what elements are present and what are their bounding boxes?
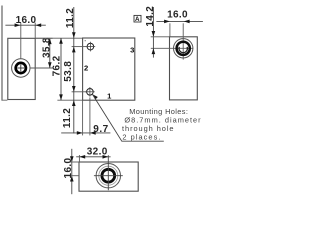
dim 14.2 upper arrow (152, 31, 156, 37)
bottom view hole center line horizontal (94, 175, 123, 177)
ext line front left edge down (82, 100, 84, 135)
right view counterbore circle (174, 39, 193, 58)
left view hole crosshair (17, 67, 24, 69)
dim 16.0 (left view) line (5, 24, 45, 26)
front view body outline (83, 38, 135, 100)
stray speck (85, 40, 86, 41)
dim 9.7 line (61, 132, 110, 134)
svg-text:3: 3 (130, 46, 135, 55)
svg-text:11.2: 11.2 (65, 8, 76, 28)
svg-text:2: 2 (84, 64, 89, 73)
svg-text:2 places.: 2 places. (122, 132, 161, 141)
ext line hole1 center left (72, 91, 87, 93)
dim 16.0 (right view) left arrow (164, 20, 170, 24)
bottom view body outline (79, 162, 138, 191)
dim 53.8 lower arrow (72, 86, 76, 92)
dim 16.0 (right view) line (156, 20, 203, 22)
dim 9.7 right arrow (90, 131, 96, 135)
dim 35.8 top arrow (48, 38, 52, 44)
right view thread arc (179, 47, 187, 53)
left view hole counterbore circle (12, 59, 30, 77)
svg-text:1: 1 (107, 92, 112, 101)
left view hole center line (vertical) (20, 23, 22, 59)
dim 35.8 line (49, 38, 51, 68)
left view right edge extension (up) (34, 23, 36, 38)
dim 32.0 left arrow (79, 155, 85, 159)
datum A frame (134, 15, 141, 22)
svg-text:9.7: 9.7 (93, 124, 108, 135)
svg-text:A: A (135, 16, 140, 23)
front view hole 1 (bottom) circle (87, 89, 94, 96)
svg-text:16.0: 16.0 (63, 157, 74, 178)
ext line top edges (left view to front view) (35, 37, 82, 39)
dim 32.0 line (76, 156, 110, 158)
ext line right rect top left (151, 36, 170, 38)
dim 16.0 (bottom view) upper arrow (70, 156, 74, 162)
svg-text:53.8: 53.8 (63, 61, 74, 82)
dim 32.0 right arrow (103, 155, 109, 159)
dim 16.0 (left view) left arrow (15, 23, 21, 27)
front view hole 1 crosshair (85, 91, 95, 93)
right view hole center line (horizontal) (151, 47, 193, 49)
left view hole center extension (to 35.8 dim) (30, 67, 52, 69)
ext line hole3 center left (72, 46, 87, 48)
right side view body outline (170, 37, 198, 100)
dim 14.2 line (152, 7, 154, 58)
svg-text:32.0: 32.0 (87, 146, 108, 157)
dim 11.2 bottom lower arrow (72, 100, 76, 106)
dim 11.2 top lower / 53.8 upper arrow (72, 47, 76, 53)
dim 76.2 top arrow (59, 38, 63, 44)
right view left edge extension up (169, 23, 171, 37)
front view hole 3 crosshair (86, 46, 96, 48)
chain dim line (11.2,53.8,11.2) (73, 7, 75, 133)
dim 16.0 (bottom view) lower arrow (70, 176, 74, 182)
svg-text:16.0: 16.0 (167, 9, 188, 20)
dim 9.7 left arrow (77, 131, 83, 135)
leader arrow to hole 1 (92, 94, 97, 99)
bottom view hole thick ring (102, 169, 115, 182)
svg-text:14.2: 14.2 (145, 6, 156, 27)
front view hole 3 (top) circle (87, 43, 94, 50)
bottom view counterbore circle (96, 164, 120, 188)
left cropped view edge (partial adjacent view) (1, 6, 3, 101)
left view mounting hole (thick ring) (16, 63, 26, 73)
left side view body outline (8, 38, 35, 99)
bottom view left edge ext up (78, 155, 80, 162)
right view hole center line (vertical) (182, 23, 184, 59)
svg-text:11.2: 11.2 (62, 108, 73, 128)
dim 16.0 (bottom view) line (71, 149, 73, 194)
leader line (92, 94, 163, 141)
ext line left-rect top to 35.8/chain (35, 37, 52, 39)
svg-text:76.2: 76.2 (52, 55, 63, 76)
ext line front bottom left (57, 99, 82, 101)
right view hole thick ring (177, 42, 190, 55)
ext bottom view top edge left (69, 161, 79, 163)
ext line hole1 center down (89, 97, 91, 135)
dim 35.8 bottom arrow (48, 62, 52, 68)
svg-text:35.8: 35.8 (41, 37, 52, 58)
bottom view hole center line vertical (107, 155, 109, 190)
dim 16.0 (right view) right arrow (184, 20, 190, 24)
dim 14.2 lower arrow (152, 48, 156, 54)
ext bottom view hole center left (69, 175, 79, 177)
dim 11.2 top upper arrow (72, 32, 76, 38)
dim 76.2 bottom arrow (59, 94, 63, 100)
dim 16.0 (left view) right arrow (35, 23, 41, 27)
bottom view mid circle (99, 166, 118, 185)
svg-text:16.0: 16.0 (16, 15, 37, 26)
dim 76.2 line (60, 38, 62, 100)
